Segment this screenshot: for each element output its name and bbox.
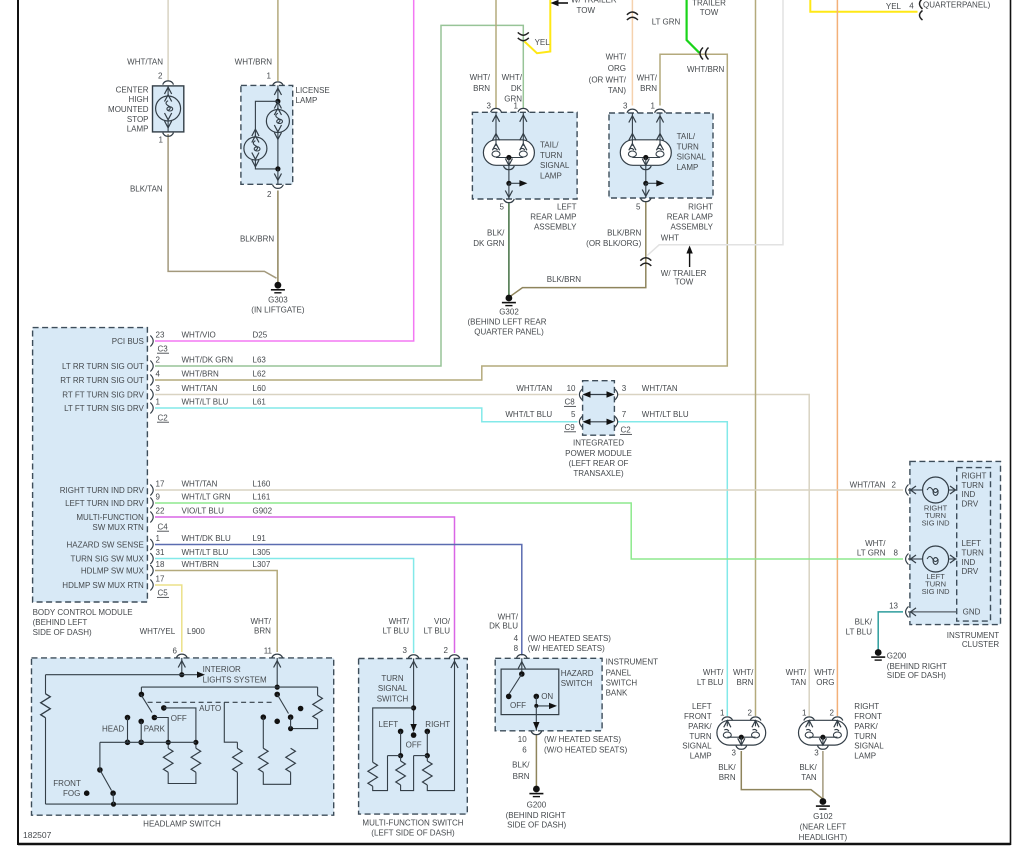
- svg-text:WHT/VIO: WHT/VIO: [182, 331, 216, 340]
- svg-text:AUTO: AUTO: [199, 704, 221, 713]
- svg-text:WHT/LT GRN: WHT/LT GRN: [182, 493, 231, 502]
- svg-text:LT BLU: LT BLU: [846, 628, 873, 637]
- svg-text:2: 2: [267, 190, 272, 199]
- svg-text:BRN: BRN: [640, 84, 657, 93]
- svg-text:BRN: BRN: [719, 773, 736, 782]
- wire WHT/YEL L900: BCM pin 17 to headlamp switch pin 6: [155, 585, 182, 652]
- ground G200 (cluster): [871, 649, 885, 660]
- svg-text:WHT/DK BLU: WHT/DK BLU: [182, 534, 232, 543]
- switch MULTI-FUNCTION (TURN SIGNAL) SWITCH: [359, 655, 468, 814]
- svg-text:LEFT: LEFT: [557, 202, 577, 211]
- svg-text:L307: L307: [253, 560, 271, 569]
- svg-text:TURN: TURN: [540, 151, 562, 160]
- svg-text:(NEAR LEFT: (NEAR LEFT: [800, 822, 847, 831]
- svg-text:9: 9: [156, 493, 161, 502]
- svg-text:POWER MODULE: POWER MODULE: [565, 449, 632, 458]
- svg-text:BLK/: BLK/: [799, 763, 817, 772]
- quarterpanel connector pin 4: [920, 0, 923, 9]
- svg-text:FOG: FOG: [63, 789, 80, 798]
- svg-text:ORG: ORG: [608, 64, 626, 73]
- wire BLK/TAN from CHMSL pin 1 to G303: [168, 134, 276, 278]
- svg-text:SWITCH: SWITCH: [606, 679, 638, 688]
- in-line connector on WHT/DK GRN: [518, 32, 529, 35]
- svg-text:RIGHT: RIGHT: [425, 720, 450, 729]
- svg-text:BLK/: BLK/: [718, 763, 736, 772]
- svg-text:WHT/: WHT/: [733, 668, 754, 677]
- svg-text:(W/O HEATED SEATS): (W/O HEATED SEATS): [544, 746, 628, 755]
- svg-text:WHT/: WHT/: [814, 668, 835, 677]
- svg-text:LT BLU: LT BLU: [383, 627, 410, 636]
- svg-text:TURN SIG SW MUX: TURN SIG SW MUX: [70, 554, 144, 563]
- lamp RIGHT FRONT PARK/TURN SIGNAL LAMP: [799, 717, 848, 749]
- svg-text:1: 1: [159, 135, 164, 144]
- svg-text:3: 3: [156, 384, 161, 393]
- connector LT GRN to WHT/BRN: [700, 48, 703, 60]
- svg-text:1: 1: [651, 101, 656, 110]
- svg-text:WHT/LT BLU: WHT/LT BLU: [182, 548, 229, 557]
- svg-text:TURN: TURN: [962, 481, 984, 490]
- svg-text:1: 1: [156, 534, 161, 543]
- svg-text:ON: ON: [541, 692, 553, 701]
- svg-text:WHT/: WHT/: [606, 52, 627, 61]
- svg-text:STOP: STOP: [127, 115, 149, 124]
- lamp LEFT REAR TAIL/TURN SIGNAL LAMP: [472, 108, 577, 202]
- svg-text:WHT/TAN: WHT/TAN: [516, 384, 552, 393]
- svg-text:WHT/TAN: WHT/TAN: [850, 480, 886, 489]
- switch HAZARD SWITCH / INSTRUMENT PANEL SWITCH BANK: [495, 655, 602, 735]
- svg-text:LT RR TURN SIG OUT: LT RR TURN SIG OUT: [62, 362, 144, 371]
- svg-text:IND: IND: [962, 490, 976, 499]
- svg-text:TOW: TOW: [577, 6, 596, 15]
- svg-text:1: 1: [720, 709, 725, 718]
- svg-text:INTEGRATED: INTEGRATED: [573, 439, 624, 448]
- svg-text:C9: C9: [565, 423, 576, 432]
- module INSTRUMENT CLUSTER: [910, 461, 1001, 624]
- svg-text:4: 4: [514, 634, 519, 643]
- svg-text:GND: GND: [963, 608, 981, 617]
- svg-text:RT RR TURN SIG OUT: RT RR TURN SIG OUT: [60, 376, 144, 385]
- svg-text:1: 1: [514, 101, 519, 110]
- svg-text:LT BLU: LT BLU: [424, 627, 451, 636]
- svg-text:OFF: OFF: [406, 741, 422, 750]
- svg-text:RIGHT: RIGHT: [688, 202, 713, 211]
- svg-text:WHT/LT BLU: WHT/LT BLU: [182, 398, 229, 407]
- svg-text:WHT/: WHT/: [637, 73, 658, 82]
- svg-text:IND: IND: [962, 558, 976, 567]
- svg-text:YEL: YEL: [886, 2, 902, 11]
- svg-text:(BEHIND LEFT: (BEHIND LEFT: [33, 618, 88, 627]
- svg-text:SIGNAL: SIGNAL: [540, 161, 570, 170]
- svg-text:TAIL/: TAIL/: [677, 132, 696, 141]
- svg-text:L61: L61: [253, 398, 267, 407]
- svg-text:HEADLAMP SWITCH: HEADLAMP SWITCH: [143, 819, 221, 828]
- svg-text:DK BLU: DK BLU: [489, 622, 518, 631]
- svg-text:BRN: BRN: [254, 627, 271, 636]
- wire WHT/LT BLU L61: BCM pin 1 to left front park/turn lamp pin 1: [155, 408, 578, 422]
- svg-text:SIG IND: SIG IND: [922, 518, 951, 527]
- svg-text:SWITCH: SWITCH: [377, 694, 409, 703]
- svg-text:W/ TRAILER: W/ TRAILER: [571, 0, 617, 4]
- svg-text:31: 31: [156, 548, 165, 557]
- svg-text:INSTRUMENT: INSTRUMENT: [606, 658, 659, 667]
- svg-text:18: 18: [156, 560, 165, 569]
- svg-text:L160: L160: [253, 480, 271, 489]
- svg-text:ASSEMBLY: ASSEMBLY: [534, 223, 577, 232]
- svg-text:LAMP: LAMP: [854, 752, 876, 761]
- svg-text:TURN: TURN: [962, 549, 984, 558]
- svg-text:C5: C5: [158, 589, 169, 598]
- svg-text:10: 10: [567, 384, 576, 393]
- svg-text:2: 2: [158, 71, 163, 80]
- lamp CENTER HIGH MOUNTED STOP LAMP: [153, 81, 184, 136]
- svg-text:INTERIOR: INTERIOR: [203, 665, 241, 674]
- svg-text:1: 1: [267, 71, 272, 80]
- svg-text:SIDE OF DASH): SIDE OF DASH): [33, 628, 92, 637]
- wire WHT/BRN to left tail lamp pin 3: [495, 0, 497, 109]
- svg-text:PCI BUS: PCI BUS: [112, 337, 144, 346]
- svg-text:FRONT: FRONT: [53, 779, 81, 788]
- svg-text:G902: G902: [253, 507, 273, 516]
- svg-text:(BEHIND LEFT REAR: (BEHIND LEFT REAR: [468, 318, 547, 327]
- svg-text:182507: 182507: [23, 830, 52, 840]
- svg-text:OFF: OFF: [171, 714, 187, 723]
- svg-text:3: 3: [487, 101, 492, 110]
- svg-text:3: 3: [731, 748, 736, 757]
- svg-text:(OR BLK/ORG): (OR BLK/ORG): [586, 239, 641, 248]
- black arrow W/ TRAILER TOW (rear): [689, 250, 691, 267]
- svg-text:WHT/YEL: WHT/YEL: [140, 627, 176, 636]
- svg-text:1: 1: [802, 709, 807, 718]
- page right border: [1010, 0, 1012, 845]
- svg-text:LEFT: LEFT: [692, 702, 712, 711]
- svg-text:OFF: OFF: [510, 701, 526, 710]
- svg-text:TRANSAXLE): TRANSAXLE): [573, 469, 624, 478]
- svg-text:D25: D25: [253, 331, 268, 340]
- svg-text:YEL: YEL: [535, 38, 551, 47]
- svg-text:HDLMP SW MUX: HDLMP SW MUX: [81, 566, 145, 575]
- svg-text:10: 10: [518, 735, 527, 744]
- svg-text:2: 2: [892, 480, 897, 489]
- svg-text:17: 17: [156, 575, 165, 584]
- svg-text:WHT/TAN: WHT/TAN: [182, 480, 218, 489]
- svg-text:RIGHT: RIGHT: [962, 472, 987, 481]
- svg-text:TAN): TAN): [608, 86, 626, 95]
- svg-text:LEFT: LEFT: [962, 539, 982, 548]
- svg-text:WHT/BRN: WHT/BRN: [235, 57, 273, 66]
- module BODY CONTROL MODULE: [33, 328, 148, 602]
- svg-text:5: 5: [636, 202, 641, 211]
- switch HEADLAMP SWITCH: [32, 654, 334, 815]
- svg-text:LAMP: LAMP: [677, 163, 699, 172]
- svg-text:BLK/: BLK/: [487, 228, 505, 237]
- svg-text:HEAD: HEAD: [102, 724, 124, 733]
- svg-text:BANK: BANK: [606, 689, 628, 698]
- svg-text:4: 4: [156, 370, 161, 379]
- ground G302: [502, 295, 516, 306]
- svg-text:BLK/BRN: BLK/BRN: [547, 275, 581, 284]
- svg-text:C2: C2: [621, 426, 632, 435]
- svg-text:FRONT: FRONT: [684, 712, 712, 721]
- svg-text:LT FT TURN SIG DRV: LT FT TURN SIG DRV: [64, 404, 144, 413]
- svg-text:13: 13: [889, 601, 898, 610]
- svg-text:MULTI-FUNCTION SWITCH: MULTI-FUNCTION SWITCH: [362, 819, 463, 828]
- svg-text:3: 3: [814, 748, 819, 757]
- svg-text:2: 2: [830, 709, 835, 718]
- svg-text:LAMP: LAMP: [127, 125, 149, 134]
- svg-text:HAZARD: HAZARD: [561, 669, 594, 678]
- svg-text:2: 2: [444, 646, 449, 655]
- svg-text:(BEHIND RIGHT: (BEHIND RIGHT: [506, 811, 566, 820]
- svg-text:INSTRUMENT: INSTRUMENT: [947, 631, 1000, 640]
- svg-text:TAIL/: TAIL/: [540, 141, 559, 150]
- svg-text:L62: L62: [253, 370, 267, 379]
- svg-text:WHT/: WHT/: [865, 539, 886, 548]
- svg-text:TAN: TAN: [791, 678, 807, 687]
- svg-text:LT GRN: LT GRN: [857, 549, 886, 558]
- svg-text:WHT/: WHT/: [703, 668, 724, 677]
- svg-text:TAN: TAN: [801, 773, 817, 782]
- svg-text:C2: C2: [158, 413, 169, 422]
- svg-text:4: 4: [909, 1, 914, 10]
- svg-text:WHT/BRN: WHT/BRN: [182, 370, 220, 379]
- svg-text:PARK/: PARK/: [688, 722, 712, 731]
- ground G102: [816, 798, 830, 809]
- svg-text:BLK/TAN: BLK/TAN: [130, 185, 163, 194]
- svg-text:SIGNAL: SIGNAL: [854, 742, 884, 751]
- svg-text:8: 8: [894, 549, 899, 558]
- svg-text:TURN: TURN: [689, 732, 711, 741]
- svg-text:HIGH: HIGH: [129, 95, 149, 104]
- svg-text:WHT/: WHT/: [470, 73, 491, 82]
- svg-text:C3: C3: [158, 344, 169, 353]
- svg-text:SIGNAL: SIGNAL: [682, 742, 712, 751]
- svg-text:WHT/BRN: WHT/BRN: [687, 65, 725, 74]
- wire VIO/LT BLU G902: BCM pin 22 to multi-function switch pin 2: [155, 517, 455, 653]
- svg-text:SIDE OF DASH): SIDE OF DASH): [507, 821, 566, 830]
- indicator RIGHT TURN SIG IND: [906, 477, 957, 503]
- wire WHT/TAN to CHMSL pin 2: [167, 0, 169, 81]
- svg-text:PANEL: PANEL: [606, 668, 632, 677]
- svg-text:6: 6: [173, 647, 178, 656]
- svg-text:BLK/: BLK/: [512, 761, 530, 770]
- svg-text:BRN: BRN: [513, 772, 530, 781]
- svg-text:G302: G302: [499, 308, 519, 317]
- svg-text:PARK/: PARK/: [854, 722, 878, 731]
- svg-text:23: 23: [156, 331, 165, 340]
- svg-text:HEADLIGHT): HEADLIGHT): [799, 833, 848, 842]
- svg-text:WHT/TAN: WHT/TAN: [642, 384, 678, 393]
- svg-text:LAMP: LAMP: [690, 752, 712, 761]
- svg-text:WHT/TAN: WHT/TAN: [182, 384, 218, 393]
- svg-text:(LEFT REAR OF: (LEFT REAR OF: [569, 459, 629, 468]
- wire WHT/BRN L62 net: BCM pin 4 to right tail lamp pin 1: [155, 54, 727, 380]
- svg-text:LEFT TURN IND DRV: LEFT TURN IND DRV: [65, 499, 144, 508]
- svg-text:LEFT: LEFT: [379, 720, 399, 729]
- svg-text:BLK/BRN: BLK/BRN: [240, 235, 274, 244]
- svg-text:SW MUX RTN: SW MUX RTN: [92, 523, 144, 532]
- svg-text:WHT/: WHT/: [389, 617, 410, 626]
- svg-text:DRV: DRV: [962, 567, 979, 576]
- svg-text:C4: C4: [158, 522, 169, 531]
- svg-text:SWITCH: SWITCH: [561, 679, 593, 688]
- BCM pin brackets: [150, 336, 153, 347]
- svg-text:L900: L900: [187, 627, 205, 636]
- in-line connector on BLK/BRN (trailer tow splice): [640, 258, 651, 261]
- svg-text:2: 2: [156, 356, 161, 365]
- wire BLK/BRN: hazard switch to G200: [535, 735, 537, 787]
- svg-text:22: 22: [156, 507, 165, 516]
- svg-text:7: 7: [622, 410, 627, 419]
- svg-text:CLUSTER: CLUSTER: [962, 640, 1000, 649]
- wire BLK/BRN from license lamp pin 2 to G303: [277, 191, 279, 284]
- svg-text:WHT/LT BLU: WHT/LT BLU: [505, 410, 552, 419]
- svg-text:17: 17: [156, 480, 165, 489]
- wire WHT (w/ trailer tow): [647, 0, 783, 256]
- svg-text:SIDE OF DASH): SIDE OF DASH): [887, 671, 946, 680]
- svg-text:3: 3: [623, 101, 628, 110]
- wire BLK/BRN: left front lamp pin 3 to G102: [741, 751, 823, 799]
- svg-text:RIGHT: RIGHT: [854, 702, 879, 711]
- wire WHT/BRN to left front park/turn lamp pin 2: [755, 0, 757, 716]
- wire BLK/LT BLU: cluster pin 13 to G200: [878, 612, 903, 650]
- wire WHT/BRN to license lamp pin 1: [277, 0, 279, 81]
- wire LT GRN (trailer tow): [687, 0, 700, 53]
- svg-text:SIGNAL: SIGNAL: [378, 684, 408, 693]
- svg-text:6: 6: [522, 746, 527, 755]
- svg-text:DRV: DRV: [962, 499, 979, 508]
- black arrow W/ TRAILER TOW (top): [556, 2, 568, 4]
- cluster GND pin 13: [906, 606, 957, 617]
- svg-text:TRAILER: TRAILER: [692, 0, 726, 7]
- in-line connector on WHT/ORG: [627, 12, 638, 15]
- svg-text:G102: G102: [813, 812, 833, 821]
- svg-text:BRN: BRN: [473, 84, 490, 93]
- indicator LEFT TURN SIG IND: [906, 546, 957, 572]
- svg-text:8: 8: [514, 644, 519, 653]
- wire WHT/LT BLU L305: BCM pin 31 to turn signal switch pin 3: [155, 559, 414, 654]
- svg-text:ASSEMBLY: ASSEMBLY: [670, 223, 713, 232]
- svg-text:LT GRN: LT GRN: [652, 18, 681, 27]
- svg-text:TURN: TURN: [854, 732, 876, 741]
- svg-text:WHT/BRN: WHT/BRN: [182, 560, 220, 569]
- svg-text:DK GRN: DK GRN: [473, 239, 504, 248]
- lamp LICENSE LAMP: [241, 82, 293, 188]
- svg-text:11: 11: [264, 647, 273, 656]
- svg-text:RT FT TURN SIG DRV: RT FT TURN SIG DRV: [62, 390, 144, 399]
- svg-text:3: 3: [622, 384, 627, 393]
- wire WHT/ORG to right tail lamp pin 3: [631, 0, 633, 106]
- svg-text:(W/ HEATED SEATS): (W/ HEATED SEATS): [544, 735, 621, 744]
- svg-text:5: 5: [500, 202, 505, 211]
- svg-text:L60: L60: [253, 384, 267, 393]
- svg-text:WHT/: WHT/: [502, 73, 523, 82]
- wire WHT/DK GRN L63 from BCM pin 2 to left tail lamp pin 1: [155, 25, 523, 366]
- svg-text:RIGHT TURN IND DRV: RIGHT TURN IND DRV: [60, 486, 145, 495]
- svg-text:DK: DK: [511, 84, 523, 93]
- svg-text:TOW: TOW: [700, 8, 719, 17]
- svg-text:WHT/TAN: WHT/TAN: [127, 57, 163, 66]
- svg-text:BLK/: BLK/: [855, 618, 873, 627]
- svg-text:G200: G200: [527, 801, 547, 810]
- svg-text:BRN: BRN: [737, 678, 754, 687]
- svg-text:WHT: WHT: [661, 233, 679, 242]
- wire BLK/TAN: right front lamp pin 3 to G102: [822, 751, 824, 799]
- wire BLK/BRN: right tail lamp pin 5 to G302: [510, 202, 646, 296]
- svg-text:L91: L91: [253, 534, 267, 543]
- svg-text:HDLMP SW MUX RTN: HDLMP SW MUX RTN: [62, 581, 144, 590]
- svg-text:FRONT: FRONT: [854, 712, 882, 721]
- svg-text:QUARTERPANEL): QUARTERPANEL): [923, 0, 991, 9]
- wire YEL to quarterpanel connector: [810, 0, 917, 12]
- ground G303: [271, 282, 285, 293]
- svg-text:REAR LAMP: REAR LAMP: [530, 213, 576, 222]
- svg-text:HAZARD SW SENSE: HAZARD SW SENSE: [66, 540, 143, 549]
- svg-text:MOUNTED: MOUNTED: [108, 105, 149, 114]
- svg-text:LICENSE: LICENSE: [296, 86, 330, 95]
- svg-text:L63: L63: [253, 356, 267, 365]
- svg-text:VIO/LT BLU: VIO/LT BLU: [182, 507, 225, 516]
- wire BLK/DK GRN: left tail lamp pin 5 to G302: [508, 202, 510, 296]
- svg-text:REAR LAMP: REAR LAMP: [667, 213, 713, 222]
- svg-text:(IN LIFTGATE): (IN LIFTGATE): [251, 306, 305, 315]
- svg-text:WHT/DK GRN: WHT/DK GRN: [182, 356, 234, 365]
- svg-text:BODY CONTROL MODULE: BODY CONTROL MODULE: [33, 608, 133, 617]
- svg-text:LT BLU: LT BLU: [697, 678, 724, 687]
- svg-text:BLK/BRN: BLK/BRN: [607, 228, 641, 237]
- svg-text:TOW: TOW: [675, 277, 694, 286]
- connector INTEGRATED POWER MODULE: [579, 381, 617, 436]
- svg-text:WHT/: WHT/: [250, 617, 271, 626]
- svg-text:3: 3: [403, 646, 408, 655]
- svg-text:G200: G200: [887, 652, 907, 661]
- svg-text:ORG: ORG: [816, 678, 834, 687]
- svg-text:G303: G303: [268, 295, 288, 304]
- svg-text:5: 5: [571, 410, 576, 419]
- svg-text:MULTI-FUNCTION: MULTI-FUNCTION: [76, 513, 144, 522]
- wire WHT/ORG to right front park/turn lamp pin 2: [836, 0, 838, 716]
- svg-text:2: 2: [748, 709, 753, 718]
- svg-text:SIG IND: SIG IND: [922, 587, 951, 596]
- wire YEL (w/ trailer tow) joining WHT/DK GRN: [525, 0, 551, 53]
- svg-text:L161: L161: [253, 493, 271, 502]
- svg-text:SIGNAL: SIGNAL: [677, 153, 707, 162]
- wire WHT/BRN L307: BCM pin 18 to headlamp switch pin 11: [155, 571, 277, 653]
- svg-text:VIO/: VIO/: [434, 617, 451, 626]
- page left border: [17, 0, 19, 845]
- svg-text:(BEHIND RIGHT: (BEHIND RIGHT: [887, 662, 947, 671]
- svg-text:LAMP: LAMP: [540, 171, 562, 180]
- lamp LEFT FRONT PARK/TURN SIGNAL LAMP: [717, 717, 766, 749]
- svg-text:C8: C8: [565, 398, 576, 407]
- svg-text:QUARTER PANEL): QUARTER PANEL): [474, 328, 544, 337]
- svg-text:WHT/LT BLU: WHT/LT BLU: [642, 410, 689, 419]
- wire WHT/DK BLU L91: BCM pin 1 to hazard switch pin: [155, 545, 522, 656]
- svg-text:1: 1: [156, 398, 161, 407]
- svg-text:LAMP: LAMP: [296, 96, 318, 105]
- svg-text:PARK: PARK: [144, 724, 166, 733]
- page bottom border: [18, 843, 1011, 846]
- wire WHT/TAN L160: BCM pin 17 to cluster pin 2: [155, 489, 903, 491]
- svg-text:(W/ HEATED SEATS): (W/ HEATED SEATS): [528, 644, 605, 653]
- svg-text:(OR WHT/: (OR WHT/: [589, 75, 627, 84]
- svg-text:TURN: TURN: [381, 674, 403, 683]
- svg-text:WHT/: WHT/: [498, 613, 519, 622]
- svg-text:(LEFT SIDE OF DASH): (LEFT SIDE OF DASH): [371, 829, 455, 838]
- wire WHT/LT GRN L161: BCM pin 9 to cluster pin 8: [155, 503, 903, 559]
- svg-text:WHT/: WHT/: [786, 668, 807, 677]
- ground G200 (hazard): [529, 786, 543, 797]
- svg-text:CENTER: CENTER: [116, 85, 149, 94]
